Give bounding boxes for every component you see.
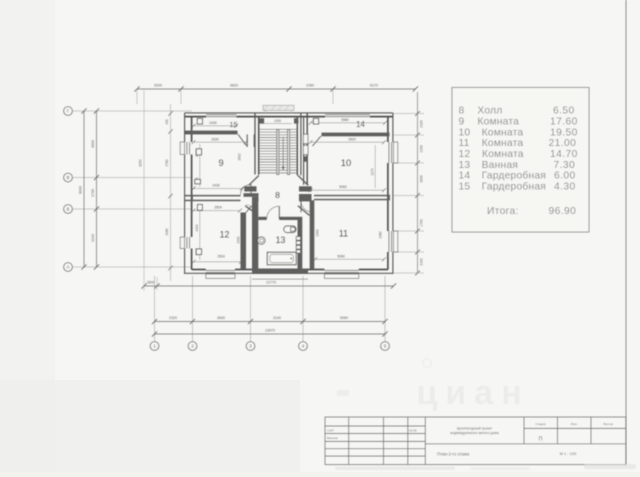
hall chamfer top-right bbox=[298, 175, 308, 185]
staircase left wall bbox=[255, 113, 259, 175]
axis extension line 3 bbox=[250, 276, 252, 342]
svg-text:7.30: 7.30 bbox=[554, 160, 576, 171]
dimension row bottom segments bbox=[152, 316, 388, 324]
svg-text:2180: 2180 bbox=[420, 258, 424, 266]
axis circle 3 bottom bbox=[246, 342, 255, 351]
window top wall room 14 bbox=[325, 115, 370, 117]
title block small texts bbox=[327, 428, 417, 440]
svg-text:5980: 5980 bbox=[341, 118, 349, 122]
thick wall below bathroom bbox=[252, 269, 308, 274]
dimension column right bbox=[393, 92, 424, 275]
axis extension line 4 bbox=[302, 276, 304, 342]
wall between room 14 and room 10 bbox=[322, 133, 390, 137]
stair bay window top bbox=[263, 105, 294, 113]
svg-text:2430: 2430 bbox=[209, 121, 217, 125]
svg-text:2270: 2270 bbox=[370, 168, 374, 175]
svg-text:циан: циан bbox=[416, 374, 529, 412]
room 12 right wall bbox=[241, 213, 247, 270]
toilet bbox=[284, 226, 296, 233]
hall upper stub right bbox=[299, 186, 312, 191]
axis line В bbox=[72, 177, 192, 179]
svg-text:2780: 2780 bbox=[165, 159, 169, 166]
svg-text:2504: 2504 bbox=[217, 255, 225, 259]
legend row 8 bbox=[459, 106, 575, 117]
bathroom door leaf and arc bbox=[267, 206, 280, 219]
svg-text:14: 14 bbox=[356, 120, 365, 129]
room 12 side dimensions bbox=[195, 209, 240, 260]
axis circle Б left bbox=[64, 205, 73, 214]
svg-text:9030: 9030 bbox=[78, 186, 82, 194]
room 11 side dimension bbox=[315, 229, 382, 238]
svg-text:3000: 3000 bbox=[154, 84, 162, 88]
axis circle 2 bottom bbox=[188, 342, 197, 351]
door from hall to room 11 arc bbox=[301, 201, 312, 212]
room 9 top dimension bbox=[192, 137, 249, 144]
svg-text:Холл: Холл bbox=[477, 106, 502, 117]
svg-text:индивидуального жилого дома: индивидуального жилого дома bbox=[450, 431, 499, 435]
wall stub right of hall 8 bbox=[299, 194, 312, 201]
svg-text:3140: 3140 bbox=[91, 234, 95, 242]
axis circle А left bbox=[64, 263, 73, 272]
vent box room 15 bbox=[197, 118, 202, 124]
legend row 15 bbox=[459, 181, 576, 193]
door from corridor to room 9 arc bbox=[241, 184, 252, 195]
vent box room 12 top bbox=[198, 205, 203, 211]
svg-text:3600: 3600 bbox=[91, 140, 95, 148]
outer wall right inner line bbox=[387, 117, 389, 270]
svg-text:1050: 1050 bbox=[306, 84, 314, 88]
room 10 top dimension bbox=[309, 137, 387, 144]
svg-text:6170: 6170 bbox=[370, 84, 378, 88]
svg-text:8: 8 bbox=[275, 190, 280, 200]
axis circle 4 bottom bbox=[299, 342, 308, 351]
room 12 bottom dimension bbox=[192, 255, 244, 264]
axis circle Г left bbox=[64, 107, 73, 116]
staircase stringer right bbox=[288, 129, 290, 174]
svg-text:3630: 3630 bbox=[217, 316, 225, 320]
svg-text:Гардеробная: Гардеробная bbox=[482, 181, 546, 193]
outer wall top outer line bbox=[185, 112, 393, 114]
svg-text:10: 10 bbox=[341, 157, 351, 168]
dimension column inner left bbox=[139, 104, 173, 281]
svg-text:12770: 12770 bbox=[266, 281, 276, 285]
duct vent square upper bbox=[303, 134, 308, 143]
watermark cian bbox=[337, 359, 530, 413]
room 14 dimension bbox=[309, 118, 388, 125]
exterior step below bathroom bbox=[252, 278, 308, 280]
svg-text:4.30: 4.30 bbox=[554, 182, 576, 193]
svg-text:6.50: 6.50 bbox=[553, 106, 575, 117]
svg-text:12: 12 bbox=[220, 230, 230, 240]
svg-text:Итога:: Итога: bbox=[487, 206, 519, 217]
svg-text:А: А bbox=[67, 265, 70, 270]
svg-text:М 1 : 100: М 1 : 100 bbox=[560, 451, 577, 456]
svg-text:13: 13 bbox=[459, 160, 471, 171]
axis line Б bbox=[72, 208, 192, 210]
outer wall left inner line bbox=[191, 117, 193, 270]
svg-text:В: В bbox=[67, 175, 70, 180]
svg-text:17.60: 17.60 bbox=[550, 116, 578, 127]
outer wall right outer line bbox=[392, 113, 394, 274]
svg-text:2610: 2610 bbox=[237, 153, 241, 160]
hall chamfer bottom-right bbox=[298, 206, 310, 216]
hall upper stub left bbox=[244, 186, 256, 191]
room 9 bottom dimension bbox=[192, 183, 244, 190]
svg-text:13: 13 bbox=[276, 235, 286, 245]
dimension column left segments bbox=[91, 108, 99, 269]
svg-text:1700: 1700 bbox=[91, 189, 95, 197]
svg-text:2530: 2530 bbox=[211, 137, 219, 141]
svg-text:Б: Б bbox=[67, 207, 70, 212]
bathtub bbox=[267, 252, 296, 264]
svg-text:15: 15 bbox=[459, 182, 471, 193]
bathroom 13 top wall right segment bbox=[279, 217, 297, 220]
title block project name bbox=[450, 426, 499, 435]
svg-text:9: 9 bbox=[218, 158, 223, 168]
svg-text:6.00: 6.00 bbox=[554, 171, 576, 182]
svg-text:5060: 5060 bbox=[337, 254, 345, 258]
svg-text:3900: 3900 bbox=[420, 175, 424, 183]
staircase right wall bbox=[297, 113, 301, 175]
duct wall right of staircase bbox=[304, 113, 308, 185]
staircase newel left bbox=[260, 118, 265, 123]
svg-text:3140: 3140 bbox=[273, 316, 281, 320]
svg-text:Ванная: Ванная bbox=[482, 160, 518, 171]
svg-text:1490: 1490 bbox=[195, 224, 199, 231]
legend row 10 bbox=[459, 127, 578, 138]
room 9 side dimensions bbox=[195, 144, 241, 187]
axis extension line 5 bbox=[384, 276, 386, 342]
duct vent square lower bbox=[303, 145, 308, 154]
svg-text:1760: 1760 bbox=[420, 219, 424, 227]
svg-text:Комната: Комната bbox=[477, 116, 519, 127]
svg-text:Архитектурный проект: Архитектурный проект bbox=[457, 426, 493, 430]
hall chamfer bottom-left bbox=[245, 206, 258, 215]
window right wall room 11 bbox=[389, 231, 398, 252]
vent box room 12 bottom bbox=[196, 249, 201, 255]
room 11 bottom dimension bbox=[313, 254, 386, 261]
svg-text:2980: 2980 bbox=[165, 228, 169, 235]
wall between room 9 and room 12 bbox=[185, 195, 241, 201]
svg-text:9: 9 bbox=[459, 116, 465, 127]
outer wall top inner line bbox=[185, 116, 393, 118]
dimension row bottom 12770 bbox=[141, 90, 396, 291]
axis circle 5 bottom bbox=[381, 342, 390, 351]
door room 14 leaf bbox=[313, 136, 322, 146]
outer wall bottom outer line bbox=[185, 272, 393, 274]
vent box room 9 bottom bbox=[195, 179, 201, 183]
window left wall room 9 bbox=[180, 142, 189, 155]
wall stub left of hall 8 bbox=[244, 193, 259, 197]
svg-text:5060: 5060 bbox=[340, 316, 348, 320]
svg-text:План 2-го этажа: План 2-го этажа bbox=[437, 451, 470, 456]
hall chamfer top-left bbox=[249, 175, 259, 185]
axis extension line 1 bbox=[154, 276, 156, 342]
sink bbox=[258, 237, 265, 244]
wall between room 15 and room 9 bbox=[185, 131, 238, 135]
vent box room 14 left bbox=[313, 118, 318, 124]
svg-text:19.50: 19.50 bbox=[550, 127, 578, 138]
svg-text:Лист: Лист bbox=[571, 422, 578, 426]
svg-text:96.90: 96.90 bbox=[549, 206, 577, 217]
title block grid bbox=[325, 417, 626, 465]
staircase treads bbox=[259, 129, 297, 173]
axis circle В left bbox=[64, 173, 73, 182]
legend row 14 bbox=[459, 170, 576, 182]
axis line Г bbox=[72, 110, 192, 112]
svg-text:10: 10 bbox=[459, 127, 471, 138]
bathroom 13 right wall bbox=[298, 217, 303, 269]
room 11 left wall bbox=[310, 200, 315, 269]
svg-text:6250: 6250 bbox=[139, 159, 143, 166]
svg-text:П: П bbox=[539, 436, 543, 442]
room 10 bottom dimension bbox=[309, 185, 387, 192]
legend row 9 bbox=[459, 116, 578, 127]
svg-text:1380: 1380 bbox=[379, 231, 383, 238]
room 12 top dimension bbox=[192, 206, 243, 213]
svg-text:Комната: Комната bbox=[482, 127, 524, 138]
legend total row bbox=[487, 206, 576, 217]
svg-text:Стадия: Стадия bbox=[535, 422, 546, 426]
svg-text:4820: 4820 bbox=[230, 84, 238, 88]
svg-text:1300: 1300 bbox=[420, 145, 424, 153]
legend row 13 bbox=[459, 160, 576, 171]
staircase newel right bbox=[294, 118, 298, 123]
svg-text:2800: 2800 bbox=[147, 281, 155, 285]
svg-text:5060: 5060 bbox=[339, 185, 347, 189]
staircase stringer left bbox=[277, 129, 279, 174]
window left wall room 12 bbox=[180, 237, 189, 249]
vent box room 9 left bbox=[196, 149, 201, 155]
svg-text:2430: 2430 bbox=[212, 183, 220, 187]
svg-text:Гардеробная: Гардеробная bbox=[482, 170, 546, 182]
boiler squares right of bathroom bbox=[296, 237, 300, 254]
staircase top landing dimension bbox=[262, 119, 292, 124]
bathroom 13 top wall left segment bbox=[258, 217, 266, 220]
door room 15 leaf bbox=[238, 134, 247, 145]
svg-text:8: 8 bbox=[459, 106, 465, 117]
outer wall bottom inner line bbox=[192, 269, 388, 271]
svg-text:Комната: Комната bbox=[482, 138, 524, 149]
legend box bbox=[452, 88, 589, 233]
svg-text:Комната: Комната bbox=[482, 149, 524, 160]
room 10 side dimension bbox=[370, 145, 375, 188]
duct solid block bbox=[303, 156, 308, 161]
window right wall room 10 bbox=[389, 142, 398, 163]
sheet frame right border bbox=[625, 0, 627, 465]
legend row 11 bbox=[459, 138, 577, 149]
axis line А bbox=[72, 266, 192, 268]
svg-text:14.70: 14.70 bbox=[550, 149, 578, 160]
window bottom wall room 12 bbox=[206, 270, 235, 278]
svg-text:Листов: Листов bbox=[603, 422, 613, 426]
svg-text:14: 14 bbox=[459, 171, 471, 182]
svg-text:3900: 3900 bbox=[348, 137, 356, 141]
legend row 12 bbox=[459, 149, 578, 160]
svg-text:11: 11 bbox=[339, 229, 348, 239]
staircase arrow bbox=[282, 137, 285, 171]
scan smudges bottom bbox=[335, 464, 636, 470]
svg-text:2330: 2330 bbox=[236, 236, 240, 243]
room 15 dimension bbox=[192, 121, 239, 128]
window top wall room 15 bbox=[206, 115, 237, 117]
svg-text:430: 430 bbox=[165, 119, 169, 125]
axis circle 1 bottom bbox=[150, 342, 159, 351]
door niche lines right of door 15 bbox=[247, 134, 254, 147]
svg-text:2180: 2180 bbox=[420, 120, 424, 128]
door room 12 leaf and arc bbox=[246, 205, 253, 213]
svg-text:12: 12 bbox=[459, 149, 471, 160]
title block stage headers bbox=[535, 422, 613, 426]
dimension row top bbox=[134, 84, 418, 104]
svg-text:Валеев: Валеев bbox=[327, 436, 338, 440]
svg-text:2320: 2320 bbox=[169, 316, 177, 320]
svg-text:03.06: 03.06 bbox=[409, 428, 417, 432]
svg-text:21.00: 21.00 bbox=[549, 138, 577, 149]
wall between room 10 and room 11 bbox=[314, 195, 390, 201]
axis extension line 2 bbox=[192, 276, 194, 342]
dimension row bottom total 13970 bbox=[152, 329, 388, 337]
wall between room 12 and bathroom 13 bbox=[252, 201, 258, 269]
window bottom wall room 11 bbox=[324, 270, 358, 278]
svg-text:СЖТ: СЖТ bbox=[327, 428, 334, 432]
svg-text:15: 15 bbox=[229, 120, 237, 129]
svg-text:11: 11 bbox=[459, 138, 470, 149]
wall bridge to bathroom wall bbox=[252, 197, 259, 202]
dimension column far left total bbox=[78, 108, 86, 269]
svg-text:2504: 2504 bbox=[214, 206, 222, 210]
svg-text:13970: 13970 bbox=[265, 329, 275, 333]
outer wall left outer line bbox=[184, 113, 186, 274]
svg-text:1050: 1050 bbox=[274, 119, 281, 123]
svg-text:1300: 1300 bbox=[315, 229, 319, 236]
